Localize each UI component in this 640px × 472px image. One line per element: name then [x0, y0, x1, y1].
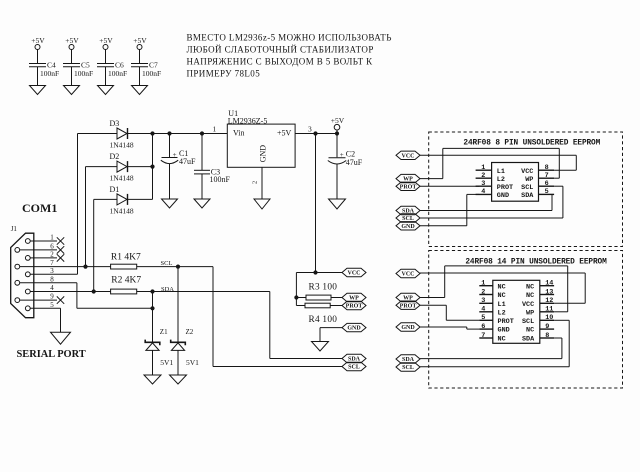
eeprom U2 24RF08 (8 pin): [492, 163, 539, 202]
svg-text:+5V: +5V: [133, 36, 147, 45]
pin 8 (8pin): [539, 164, 555, 172]
svg-text:13: 13: [545, 288, 553, 296]
wire: [295, 273, 297, 306]
junction (D2 cathode): [150, 165, 154, 169]
svg-text:2: 2: [481, 172, 485, 180]
net tag VCC (8pin): [396, 151, 420, 159]
junction (C2): [335, 131, 339, 135]
junction (D1 anode / pin 4): [92, 289, 96, 293]
wire (R2 to SDA): [137, 291, 270, 293]
wire: [37, 50, 39, 64]
wire: [37, 67, 39, 86]
svg-text:2: 2: [481, 288, 485, 296]
svg-text:VCC: VCC: [521, 168, 533, 176]
ground (C4): [30, 86, 46, 95]
wire (PROT to pin 3): [420, 185, 479, 187]
wire (diode cathodes bus): [152, 134, 154, 200]
svg-text:GND: GND: [401, 224, 415, 230]
svg-text:GND: GND: [498, 327, 510, 335]
svg-text:7: 7: [481, 332, 485, 340]
svg-text:5V1: 5V1: [160, 358, 173, 367]
net tag SCL (8pin): [396, 214, 420, 222]
pin 2 (8pin): [476, 172, 492, 180]
wire (pin 7 to R1): [20, 259, 111, 267]
svg-text:6: 6: [50, 243, 54, 251]
svg-text:ПРИМЕРУ 78L05: ПРИМЕРУ 78L05: [187, 69, 261, 79]
ground (C7): [132, 86, 148, 95]
dashed enclosure (14 pin adapter): [429, 251, 623, 389]
ground (COM1 pin 5): [51, 332, 71, 344]
net tag SCL (14pin): [396, 363, 420, 371]
svg-text:1N4148: 1N4148: [110, 174, 134, 183]
svg-text:WP: WP: [349, 296, 359, 302]
pin 5 (8pin): [539, 188, 555, 196]
wire (pin 3 up to D3): [30, 267, 77, 275]
wire: [105, 67, 107, 86]
pin 1 (14pin): [479, 280, 493, 288]
svg-text:5V1: 5V1: [186, 358, 199, 367]
wire (to Z2): [177, 267, 179, 343]
svg-text:8: 8: [50, 275, 54, 283]
net tag SDA: [342, 354, 366, 362]
pin 3 (8pin): [476, 180, 492, 188]
svg-text:2: 2: [252, 181, 259, 184]
wire (WP to pin 7): [420, 148, 559, 178]
ground (Z1): [144, 375, 161, 384]
+5V terminal (output): [331, 116, 345, 134]
wire (D3 anode to COM1 pin 3): [77, 134, 79, 275]
svg-text:ВМЕСТО LM2936z-5 МОЖНО ИСПОЛЬЗ: ВМЕСТО LM2936z-5 МОЖНО ИСПОЛЬЗОВАТЬ: [187, 33, 392, 43]
net label SCL: [161, 260, 173, 267]
svg-text:VCC: VCC: [522, 301, 534, 309]
ground (C5): [64, 86, 80, 95]
no-connect X (pin 2): [57, 254, 64, 261]
svg-text:4: 4: [50, 284, 54, 292]
svg-text:SERIAL PORT: SERIAL PORT: [17, 349, 86, 360]
svg-text:SCL: SCL: [402, 365, 414, 371]
svg-text:1N4148: 1N4148: [110, 141, 134, 150]
svg-text:+: +: [173, 151, 177, 159]
resistor R2 4K7: [111, 275, 142, 294]
svg-text:R1 4K7: R1 4K7: [111, 253, 141, 263]
wire: [139, 67, 141, 86]
svg-text:NC: NC: [498, 336, 506, 344]
wire (+5V down to VCC net): [315, 134, 317, 273]
svg-text:6: 6: [545, 180, 549, 188]
svg-text:NC: NC: [526, 327, 534, 335]
+5V terminal (C7): [133, 36, 147, 50]
wire (VCC to pin 8): [420, 155, 576, 170]
wire (D1 cathode): [128, 198, 153, 200]
net tag VCC (14pin): [396, 269, 420, 277]
pin 1 label: [213, 125, 217, 134]
wire (unregulated rail): [129, 133, 227, 135]
svg-text:COM1: COM1: [22, 201, 57, 215]
pin 9 (14pin): [540, 323, 554, 331]
svg-text:7: 7: [545, 172, 549, 180]
diode D2 1N4148: [110, 152, 134, 183]
ground (C1): [162, 199, 178, 208]
svg-text:+5V: +5V: [65, 36, 79, 45]
wire (SDA run to tag): [270, 292, 342, 359]
svg-text:+5V: +5V: [331, 116, 345, 125]
svg-text:NC: NC: [498, 283, 506, 291]
junction (SDA / Z1): [150, 289, 154, 293]
svg-text:8: 8: [545, 332, 549, 340]
+5V terminal (C6): [99, 36, 113, 50]
svg-text:47uF: 47uF: [346, 158, 363, 167]
wire: [105, 50, 107, 64]
capacitor C5 100nF: [63, 61, 93, 79]
diode D1 1N4148: [110, 185, 134, 216]
svg-text:SCL: SCL: [521, 184, 533, 192]
pin 10 (14pin): [540, 314, 554, 322]
wire: [169, 134, 171, 158]
wire: [201, 134, 203, 171]
net tag WP: [342, 293, 366, 301]
connector J1 (DB9): [11, 225, 34, 318]
svg-text:PROT: PROT: [498, 318, 514, 326]
svg-text:5: 5: [545, 188, 549, 196]
net tag GND (14pin): [396, 323, 420, 331]
svg-text:3: 3: [308, 125, 312, 134]
svg-text:SDA: SDA: [402, 357, 415, 363]
svg-text:D3: D3: [110, 119, 120, 128]
svg-text:14: 14: [545, 280, 553, 288]
ground (C6): [98, 86, 114, 95]
wire (pin 8 to SDA): [20, 275, 153, 308]
ground (C2): [329, 199, 346, 209]
pin 4 (8pin): [476, 188, 492, 196]
svg-text:L2: L2: [498, 309, 506, 317]
wire (D1 anode to COM1 pin 4): [93, 199, 95, 291]
wire (GND tag to ground): [320, 328, 342, 342]
svg-text:GND: GND: [497, 192, 509, 200]
wire (pin 9, n.c.): [20, 293, 57, 301]
svg-text:SDA: SDA: [348, 357, 361, 363]
wire (SCL to pin 6): [420, 186, 563, 218]
wire: [201, 174, 203, 199]
svg-text:+: +: [340, 151, 344, 159]
capacitor C7 100nF: [131, 61, 161, 79]
svg-text:SCL: SCL: [348, 365, 360, 371]
wire (pin 6, n.c.): [20, 243, 57, 251]
svg-text:D1: D1: [110, 185, 120, 194]
voltage regulator U1 LM2936Z-5: [227, 109, 295, 167]
svg-text:5: 5: [481, 314, 485, 322]
capacitor C4 100nF: [29, 61, 59, 79]
svg-text:VCC: VCC: [402, 153, 415, 159]
pin 13 (14pin): [540, 288, 554, 296]
wire (pin 1, n.c.): [30, 234, 57, 242]
net tag WP (8pin): [396, 174, 420, 182]
svg-text:GND: GND: [347, 326, 361, 332]
pin 7 (14pin): [479, 332, 493, 340]
svg-text:9: 9: [545, 323, 549, 331]
net tag SDA (8pin): [396, 206, 420, 214]
pin 12 (14pin): [540, 297, 554, 305]
net tag SDA (14pin): [396, 355, 420, 363]
ground (GND tag): [312, 342, 329, 352]
svg-text:R4 100: R4 100: [309, 315, 338, 325]
wire: [336, 164, 338, 199]
svg-text:PROT: PROT: [497, 184, 513, 192]
pin 3 label: [308, 125, 312, 134]
net tag PROT: [342, 301, 366, 309]
svg-text:SCL: SCL: [161, 260, 173, 267]
net label SDA: [161, 286, 174, 293]
net tag VCC: [342, 268, 366, 276]
junction (D2 anode / pin 7): [83, 265, 87, 269]
zener diode Z1 5V1: [145, 328, 173, 367]
pin 1 (8pin): [476, 164, 492, 172]
svg-text:NC: NC: [526, 292, 534, 300]
net tag WP (14pin): [396, 293, 420, 301]
svg-text:L1: L1: [497, 168, 505, 176]
svg-text:100nF: 100nF: [210, 175, 231, 184]
capacitor C2 47uF polarized: [328, 134, 363, 168]
wire: [177, 350, 179, 375]
svg-text:1: 1: [50, 234, 54, 242]
wire (VCC rail): [296, 272, 342, 274]
wire (pin 2, n.c.): [30, 251, 57, 259]
wire (GND to pin 6): [420, 327, 479, 329]
svg-text:L1: L1: [498, 301, 506, 309]
svg-text:Vin: Vin: [233, 129, 245, 138]
resistor R4 100: [296, 303, 342, 325]
svg-text:4: 4: [481, 188, 485, 196]
eeprom U3 24RF08 (14 pin): [493, 280, 540, 343]
svg-text:VCC: VCC: [402, 272, 415, 278]
svg-text:D2: D2: [110, 152, 120, 161]
pin 3 (14pin): [479, 297, 493, 305]
svg-text:SDA: SDA: [522, 336, 535, 344]
svg-text:SDA: SDA: [521, 192, 534, 200]
svg-text:3: 3: [481, 180, 485, 188]
wire (PROT to pin 5): [420, 305, 479, 320]
wire (pin to D2 anode): [86, 166, 118, 168]
capacitor C1 47uF polarized: [161, 149, 196, 166]
junction (pin 8 / SDA): [150, 306, 154, 310]
capacitor C3 100nF: [194, 168, 231, 185]
wire: [71, 67, 73, 86]
zener diode Z2 5V1: [171, 328, 199, 367]
note text: [187, 33, 392, 79]
svg-text:Z1: Z1: [160, 328, 168, 336]
wire (SCL to pin 10): [420, 320, 569, 367]
wire (D2 anode to COM1 pin 7): [85, 167, 87, 267]
svg-text:WP: WP: [526, 309, 534, 317]
+5V terminal (C5): [65, 36, 79, 50]
pin 14 (14pin): [540, 280, 554, 288]
no-connect X (pin 9): [57, 296, 64, 303]
wire: [139, 50, 141, 64]
svg-text:WP: WP: [525, 176, 533, 184]
junction (D3 cathode): [150, 131, 154, 135]
svg-text:PROT: PROT: [400, 303, 417, 309]
junction (C1): [167, 131, 171, 135]
wire: [71, 50, 73, 64]
wire (pin to D1 anode): [94, 198, 117, 200]
svg-text:1: 1: [481, 280, 485, 288]
svg-text:+5V: +5V: [99, 36, 113, 45]
svg-text:Z2: Z2: [186, 328, 194, 336]
wire (SDA to pin 8): [420, 338, 562, 359]
svg-text:L2: L2: [497, 176, 505, 184]
svg-text:GND: GND: [258, 145, 267, 163]
svg-text:4: 4: [481, 306, 485, 314]
svg-text:10: 10: [545, 314, 553, 322]
svg-text:1N4148: 1N4148: [110, 206, 134, 215]
junction (VCC): [313, 270, 317, 274]
svg-text:100nF: 100nF: [108, 69, 127, 78]
net tag PROT (14pin): [396, 301, 420, 309]
wire (D3 cathode): [128, 133, 153, 135]
svg-text:24RF08 8 PIN UNSOLDERED EEPROM: 24RF08 8 PIN UNSOLDERED EEPROM: [463, 139, 600, 147]
svg-text:PROT: PROT: [346, 304, 363, 310]
svg-text:+5V: +5V: [31, 36, 45, 45]
svg-text:1: 1: [481, 164, 485, 172]
net tag GND: [342, 323, 366, 331]
wire (SCL run to tag): [213, 267, 342, 367]
label SERIAL PORT: [17, 349, 86, 360]
svg-text:100nF: 100nF: [74, 69, 93, 78]
svg-text:NC: NC: [498, 292, 506, 300]
title 14-pin eeprom: [465, 259, 607, 267]
svg-text:100nF: 100nF: [142, 69, 161, 78]
svg-text:6: 6: [481, 323, 485, 331]
capacitor C6 100nF: [97, 61, 127, 79]
wire (GND to pin 4): [420, 194, 479, 225]
resistor R3 100: [296, 282, 342, 300]
svg-text:C2: C2: [346, 149, 355, 158]
junction (C3): [200, 131, 204, 135]
wire (R1 to SCL): [137, 266, 213, 268]
pin 4 (14pin): [479, 306, 493, 314]
svg-text:ЛЮБОЙ СЛАБОТОЧНЫЙ СТАБИЛИЗАТОР: ЛЮБОЙ СЛАБОТОЧНЫЙ СТАБИЛИЗАТОР: [187, 45, 374, 55]
svg-text:+5V: +5V: [277, 129, 292, 138]
svg-text:J1: J1: [11, 225, 18, 233]
wire (VCC to pin 12): [420, 273, 585, 303]
net tag PROT (8pin): [396, 182, 420, 190]
svg-text:1: 1: [213, 125, 217, 134]
junction (SCL / Z2): [176, 265, 180, 269]
svg-text:PROT: PROT: [400, 184, 417, 190]
no-connect X (pin 6): [57, 246, 64, 253]
pin 6 (8pin): [539, 180, 555, 188]
svg-text:НАПРЯЖЕНИС С ВЫХОДОМ В 5 ВОЛЬТ: НАПРЯЖЕНИС С ВЫХОДОМ В 5 ВОЛЬТ К: [187, 57, 374, 67]
svg-text:3: 3: [50, 267, 54, 275]
wire (WP to pin 11): [420, 266, 568, 312]
wire (pin 5 to ground): [30, 301, 60, 332]
wire (U1 GND pin): [261, 167, 263, 199]
svg-text:R3 100: R3 100: [309, 282, 338, 292]
title 8-pin eeprom: [463, 139, 600, 147]
svg-text:GND: GND: [401, 325, 415, 331]
svg-text:8: 8: [545, 164, 549, 172]
svg-text:12: 12: [545, 297, 553, 305]
svg-text:NC: NC: [526, 283, 534, 291]
pin 6 (14pin): [479, 323, 493, 331]
wire: [152, 350, 154, 375]
svg-text:VCC: VCC: [348, 271, 361, 277]
diode D3 1N4148: [110, 119, 134, 150]
resistor R1 4K7: [111, 253, 141, 269]
wire (SDA to pin 5): [420, 194, 552, 210]
svg-text:100nF: 100nF: [40, 69, 59, 78]
label COM1: [22, 201, 57, 215]
pin 2 (14pin): [479, 288, 493, 296]
pin 7 (8pin): [539, 172, 555, 180]
svg-text:2: 2: [50, 251, 54, 259]
svg-text:5: 5: [50, 301, 54, 309]
net tag GND (8pin): [396, 222, 420, 230]
ground (Z2): [170, 375, 187, 384]
svg-text:R2 4K7: R2 4K7: [111, 275, 141, 285]
no-connect X (pin 1): [57, 237, 64, 244]
wire (+5V output): [295, 133, 337, 135]
pin 11 (14pin): [540, 306, 554, 314]
svg-text:9: 9: [50, 293, 54, 301]
wire: [169, 164, 171, 199]
pin 8 (14pin): [540, 332, 554, 340]
svg-text:3: 3: [481, 297, 485, 305]
pin 2 label: [252, 181, 259, 184]
ground (U1): [254, 199, 270, 209]
wire (pin 4 to R2): [30, 284, 110, 292]
ground (C3): [194, 199, 210, 208]
junction (R3): [294, 295, 298, 299]
wire (to Z1): [152, 292, 154, 343]
+5V terminal (C4): [31, 36, 45, 50]
net tag SCL: [342, 362, 366, 370]
svg-text:11: 11: [545, 306, 553, 314]
svg-text:SCL: SCL: [522, 318, 534, 326]
wire (D2 cathode): [128, 166, 153, 168]
pin 5 (14pin): [479, 314, 493, 322]
node +5V junction: [313, 131, 317, 135]
svg-text:47uF: 47uF: [179, 157, 196, 166]
dashed enclosure (8 pin adapter): [429, 132, 623, 247]
wire (pin to D3 anode): [78, 133, 118, 135]
